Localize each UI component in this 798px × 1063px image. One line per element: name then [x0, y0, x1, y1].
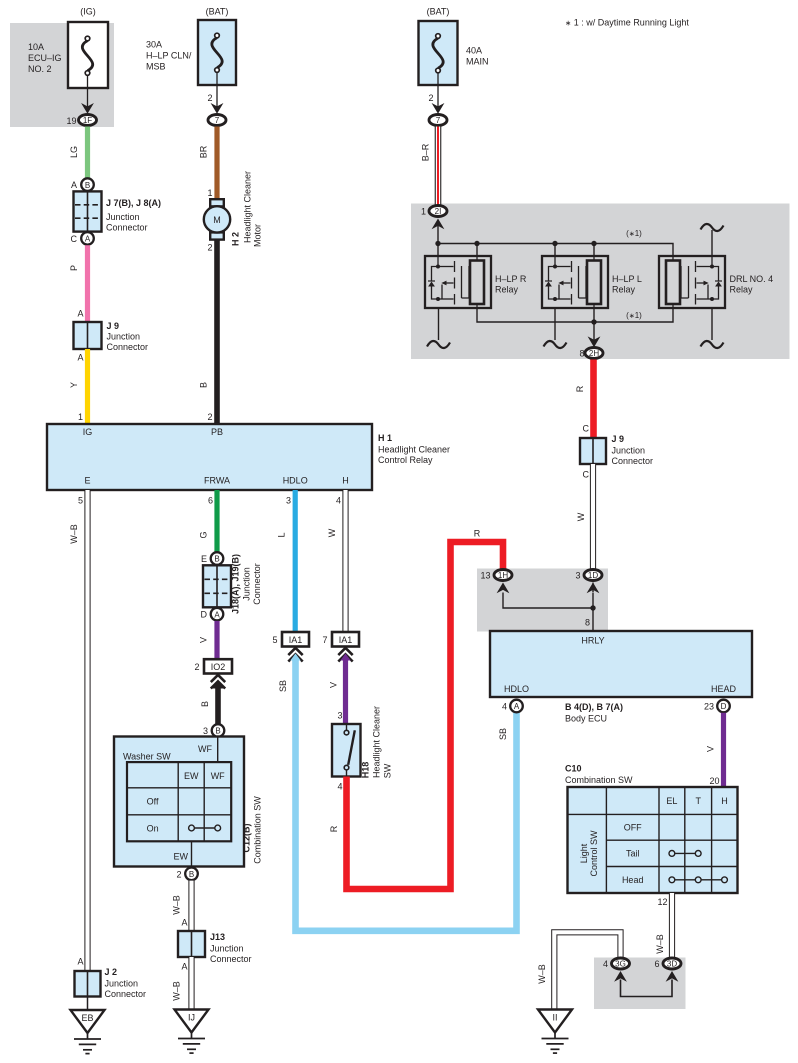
option gray box (IG fuse area) — [10, 23, 114, 127]
svg-text:2H: 2H — [589, 349, 599, 358]
svg-text:A: A — [77, 309, 83, 319]
svg-text:C: C — [71, 234, 78, 244]
svg-text:R: R — [575, 385, 585, 392]
svg-text:3: 3 — [203, 726, 208, 736]
svg-text:LG: LG — [69, 146, 79, 158]
svg-text:H18: H18 — [361, 762, 371, 779]
wire W (H1 H to IA1 pin 7) — [327, 490, 346, 632]
svg-text:(∗1): (∗1) — [626, 229, 642, 238]
svg-text:Combination SW: Combination SW — [253, 796, 263, 864]
svg-text:WF: WF — [198, 744, 212, 754]
svg-text:1: 1 — [207, 188, 212, 198]
svg-text:B: B — [214, 555, 219, 564]
svg-text:MAIN: MAIN — [466, 57, 489, 67]
svg-text:2: 2 — [207, 243, 212, 253]
svg-text:2: 2 — [194, 662, 199, 672]
combination switch C10 light control SW — [565, 764, 738, 894]
svg-text:IO2: IO2 — [211, 662, 226, 672]
svg-text:V: V — [329, 682, 339, 688]
svg-text:H–LP R: H–LP R — [495, 274, 527, 284]
svg-text:Junction: Junction — [612, 446, 646, 456]
svg-text:J18(A), J19(B): J18(A), J19(B) — [231, 554, 241, 614]
wire SB (IA1 to Body ECU HDLO) — [278, 654, 517, 931]
svg-text:R: R — [329, 825, 339, 832]
junction connector J13 — [178, 931, 252, 964]
ground EB — [71, 997, 105, 1054]
connector 7 (BAT fuse 3) — [429, 115, 447, 126]
svg-text:(BAT): (BAT) — [206, 7, 229, 17]
svg-text:7: 7 — [322, 635, 327, 645]
wire B (motor to H1 PB) — [199, 240, 218, 424]
svg-text:4: 4 — [337, 782, 342, 792]
svg-text:3: 3 — [286, 496, 291, 506]
ECU B 4(D), B 7(A) Body ECU — [490, 631, 752, 724]
svg-text:NO. 2: NO. 2 — [28, 64, 52, 74]
wire W-B (washer SW to J13) — [172, 881, 192, 931]
relay H 1 Headlight Cleaner Control Relay — [47, 424, 450, 490]
svg-text:V: V — [199, 637, 209, 643]
svg-text:8: 8 — [579, 349, 584, 359]
relay option gray box — [411, 204, 790, 360]
svg-text:3D: 3D — [667, 960, 677, 969]
wire W-B (C10 to 3D) — [655, 893, 672, 957]
connector 7 (BAT fuse 2) — [208, 115, 226, 126]
wire L (H1 HDLO to IA1) — [277, 490, 296, 632]
svg-text:J 9: J 9 — [107, 321, 120, 331]
svg-text:Relay: Relay — [730, 285, 754, 295]
svg-text:HDLO: HDLO — [504, 684, 529, 694]
svg-text:Control SW: Control SW — [589, 830, 599, 877]
wire fuse3 to connector 7 — [428, 73, 444, 114]
wire V (body ECU HEAD to C10) — [706, 713, 724, 787]
svg-text:G: G — [199, 531, 209, 538]
ground IJ — [175, 1010, 209, 1054]
svg-text:1F: 1F — [83, 116, 92, 125]
svg-text:1: 1 — [78, 412, 83, 422]
svg-text:B: B — [215, 727, 220, 736]
svg-text:HDLO: HDLO — [283, 476, 308, 486]
svg-text:23: 23 — [704, 702, 714, 712]
svg-text:T: T — [695, 796, 701, 806]
ground II — [538, 1010, 572, 1054]
connector gray box 1H/1D — [477, 569, 608, 632]
svg-text:OFF: OFF — [624, 823, 642, 833]
svg-text:EW: EW — [184, 771, 199, 781]
svg-text:H: H — [721, 796, 728, 806]
svg-text:13: 13 — [480, 571, 490, 581]
svg-text:W–B: W–B — [537, 964, 547, 984]
svg-text:Headlight Cleaner: Headlight Cleaner — [372, 706, 382, 778]
svg-text:8: 8 — [585, 618, 590, 628]
svg-text:Headlight Cleaner: Headlight Cleaner — [243, 171, 253, 243]
wire BR — [199, 127, 218, 200]
fuse 10A ECU-IG NO. 2 — [28, 7, 108, 89]
svg-text:2: 2 — [176, 870, 181, 880]
svg-text:∗ 1 : w/ Daytime Running Light: ∗ 1 : w/ Daytime Running Light — [565, 18, 689, 28]
svg-text:M: M — [213, 215, 221, 225]
svg-text:2I: 2I — [435, 207, 442, 216]
svg-text:2: 2 — [207, 93, 212, 103]
svg-text:W: W — [327, 528, 337, 537]
svg-text:E: E — [201, 554, 207, 564]
wire fuse2 to connector 7 — [207, 72, 223, 114]
wire R (2H to J9) — [575, 360, 594, 439]
wire B-R — [421, 127, 439, 205]
switch H18 Headlight Cleaner SW — [332, 706, 393, 792]
junction connector J 9 (left) — [74, 309, 149, 363]
svg-text:C: C — [583, 470, 590, 480]
svg-text:D: D — [201, 610, 208, 620]
svg-text:Junction: Junction — [242, 567, 252, 601]
svg-text:10A: 10A — [28, 42, 44, 52]
svg-text:W–B: W–B — [69, 524, 79, 544]
connector 2H pin 8 — [579, 348, 603, 359]
svg-text:3: 3 — [337, 711, 342, 721]
wire G (H1 FRWA to J18) — [199, 490, 218, 552]
connector IO2 pin 2 — [194, 659, 232, 688]
connector 1D pin 3 — [575, 570, 602, 581]
svg-text:(∗1): (∗1) — [626, 311, 642, 320]
fuse 30A H-LP CLN/MSB — [146, 7, 236, 86]
fuse 40A MAIN — [419, 7, 489, 86]
svg-text:3: 3 — [575, 571, 580, 581]
svg-text:C: C — [583, 424, 590, 434]
svg-text:SB: SB — [278, 680, 288, 692]
combination switch C12(B) washer SW — [114, 724, 263, 880]
link 1H 1D to body ECU — [497, 583, 600, 632]
wire 2I to bus — [432, 219, 445, 257]
svg-text:W–B: W–B — [172, 895, 182, 915]
svg-text:J 2: J 2 — [105, 967, 118, 977]
bus line bottom (*1) — [477, 308, 673, 347]
svg-text:W: W — [576, 512, 586, 521]
connector IA1 pin 7 — [322, 632, 359, 662]
svg-text:R: R — [474, 529, 481, 539]
svg-text:1H: 1H — [498, 571, 508, 580]
svg-text:12: 12 — [657, 897, 667, 907]
relay bottom lines and squiggles — [427, 308, 724, 348]
svg-text:(BAT): (BAT) — [427, 7, 450, 17]
svg-text:On: On — [147, 824, 159, 834]
wire V (IA1 to H18) — [329, 654, 351, 725]
wire LG — [69, 127, 88, 178]
wire W-B (J13 to ground IJ) — [172, 957, 192, 1010]
svg-text:Off: Off — [147, 797, 159, 807]
svg-text:A: A — [214, 610, 220, 619]
svg-text:Connector: Connector — [210, 954, 252, 964]
svg-text:6: 6 — [654, 959, 659, 969]
svg-text:Control Relay: Control Relay — [378, 455, 433, 465]
svg-text:7: 7 — [436, 116, 441, 125]
svg-text:Y: Y — [69, 382, 79, 388]
svg-text:5: 5 — [272, 635, 277, 645]
svg-text:19: 19 — [66, 116, 76, 126]
junction connector J 2 — [75, 967, 147, 999]
connector gray box 3G/3D — [594, 958, 686, 1010]
svg-text:Headlight Cleaner: Headlight Cleaner — [378, 445, 450, 455]
svg-text:B: B — [85, 181, 90, 190]
svg-text:Connector: Connector — [612, 456, 654, 466]
svg-text:(IG): (IG) — [80, 7, 96, 17]
wire B (IO2 to washer SW) — [200, 681, 225, 724]
svg-text:B: B — [200, 701, 210, 707]
svg-text:A: A — [71, 180, 77, 190]
connector 1F pin 19 — [66, 115, 96, 127]
svg-text:7: 7 — [215, 116, 220, 125]
svg-text:WF: WF — [211, 771, 225, 781]
svg-text:Junction: Junction — [106, 212, 140, 222]
svg-text:A: A — [181, 962, 187, 972]
svg-text:Light: Light — [579, 843, 589, 863]
svg-text:30A: 30A — [146, 40, 162, 50]
svg-text:IJ: IJ — [188, 1013, 195, 1023]
connector 1H pin 13 — [480, 570, 512, 581]
wire W-B (H1 E to J2) — [69, 490, 88, 971]
svg-text:Connector: Connector — [106, 223, 148, 233]
svg-text:A: A — [514, 702, 520, 711]
svg-text:Relay: Relay — [612, 285, 636, 295]
svg-text:DRL NO. 4: DRL NO. 4 — [730, 274, 774, 284]
relay H-LP R — [425, 256, 527, 308]
svg-text:D: D — [721, 702, 727, 711]
svg-text:3G: 3G — [615, 960, 626, 969]
connector D pin 23 (body ECU HEAD) — [704, 700, 730, 713]
svg-text:B: B — [189, 870, 194, 879]
svg-text:A: A — [85, 235, 91, 244]
svg-text:L: L — [277, 532, 287, 537]
svg-text:Connector: Connector — [105, 989, 147, 999]
svg-text:Body ECU: Body ECU — [565, 714, 607, 724]
relay DRL NO. 4 — [659, 256, 773, 308]
junction connector J 9 (right) — [580, 434, 653, 480]
wire Y — [69, 349, 88, 424]
svg-text:HRLY: HRLY — [581, 636, 604, 646]
squiggle above DRL relay — [701, 224, 724, 256]
svg-text:H–LP CLN/: H–LP CLN/ — [146, 51, 192, 61]
svg-text:Combination SW: Combination SW — [565, 775, 633, 785]
svg-text:A: A — [77, 957, 83, 967]
wire R (H18 to 1H) — [329, 529, 503, 890]
svg-text:5: 5 — [78, 496, 83, 506]
svg-text:1D: 1D — [588, 571, 598, 580]
svg-text:Junction: Junction — [107, 332, 141, 342]
wire fuse1 to connector 1F — [81, 75, 94, 114]
connector A pin 4 (body ECU HDLO) — [502, 700, 523, 713]
relay H-LP L — [542, 256, 642, 308]
svg-text:H–LP L: H–LP L — [612, 274, 642, 284]
svg-text:Motor: Motor — [253, 224, 263, 247]
svg-text:IG: IG — [83, 427, 93, 437]
svg-text:Head: Head — [622, 875, 644, 885]
svg-text:Tail: Tail — [626, 849, 640, 859]
svg-text:J 9: J 9 — [612, 434, 625, 444]
svg-text:V: V — [706, 746, 716, 752]
wire P — [69, 245, 88, 322]
svg-text:2: 2 — [428, 93, 433, 103]
svg-text:6: 6 — [208, 496, 213, 506]
svg-text:Connector: Connector — [252, 563, 262, 605]
svg-text:Junction: Junction — [105, 979, 139, 989]
svg-text:BR: BR — [199, 145, 209, 158]
motor H 2 Headlight Cleaner Motor — [204, 171, 263, 253]
svg-text:MSB: MSB — [146, 62, 166, 72]
svg-text:IA1: IA1 — [289, 635, 303, 645]
svg-text:H 1: H 1 — [378, 433, 392, 443]
connector 3D pin 6 — [654, 958, 681, 969]
junction connector J18(A), J19(B) — [201, 552, 263, 620]
svg-text:EW: EW — [174, 852, 189, 862]
svg-text:4: 4 — [336, 496, 341, 506]
junction connector J 7(B), J 8(A) — [71, 178, 162, 244]
svg-text:E: E — [84, 476, 90, 486]
connector 2I pin 1 — [421, 206, 447, 217]
wire W-B (3G to ground II) — [537, 932, 621, 1009]
svg-text:20: 20 — [709, 776, 719, 786]
svg-text:J 7(B), J 8(A): J 7(B), J 8(A) — [106, 198, 161, 208]
connector 3G pin 4 — [603, 958, 630, 969]
svg-text:SW: SW — [383, 763, 393, 778]
svg-text:4: 4 — [603, 959, 608, 969]
svg-text:PB: PB — [211, 427, 223, 437]
svg-text:Relay: Relay — [495, 285, 519, 295]
svg-text:FRWA: FRWA — [204, 476, 230, 486]
svg-text:2: 2 — [207, 412, 212, 422]
svg-text:A: A — [181, 918, 187, 928]
svg-text:B–R: B–R — [421, 143, 431, 161]
svg-text:II: II — [552, 1013, 557, 1023]
svg-text:C10: C10 — [565, 764, 582, 774]
svg-text:J13: J13 — [210, 932, 225, 942]
svg-text:40A: 40A — [466, 46, 482, 56]
svg-text:Washer SW: Washer SW — [123, 752, 171, 762]
svg-text:IA1: IA1 — [339, 635, 353, 645]
svg-text:Junction: Junction — [210, 944, 244, 954]
svg-text:EL: EL — [666, 796, 677, 806]
svg-text:C12(B): C12(B) — [242, 823, 252, 852]
svg-text:SB: SB — [498, 728, 508, 740]
svg-text:W–B: W–B — [172, 981, 182, 1001]
svg-text:HEAD: HEAD — [711, 684, 737, 694]
svg-text:B: B — [199, 382, 209, 388]
svg-text:Connector: Connector — [107, 342, 149, 352]
connector IA1 pin 5 — [272, 632, 309, 662]
svg-text:P: P — [69, 265, 79, 271]
svg-text:H: H — [342, 476, 349, 486]
svg-text:EB: EB — [81, 1013, 93, 1023]
wire V (J18 to IO2) — [199, 621, 218, 659]
svg-text:A: A — [77, 353, 83, 363]
svg-text:B 4(D), B 7(A): B 4(D), B 7(A) — [565, 702, 623, 712]
bus line top (*1) — [435, 229, 673, 256]
link 3G 3D — [614, 971, 678, 997]
svg-text:W–B: W–B — [655, 934, 665, 954]
svg-text:4: 4 — [502, 702, 507, 712]
svg-text:H 2: H 2 — [231, 232, 241, 246]
svg-text:1: 1 — [421, 207, 426, 217]
wire W (J9 to 1D) — [576, 464, 593, 569]
svg-text:ECU–IG: ECU–IG — [28, 53, 62, 63]
